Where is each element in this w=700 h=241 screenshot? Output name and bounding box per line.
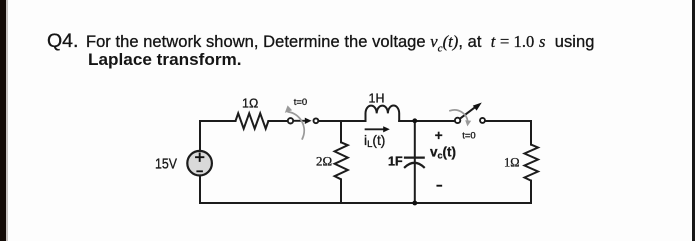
source V1 plus sign xyxy=(196,154,203,161)
svg-text:t=0: t=0 xyxy=(294,97,307,108)
node A junction dot (inductor/capacitor top) xyxy=(412,118,417,123)
question text line 2 xyxy=(88,51,242,70)
switch S2 motion arc arrowhead (gray) xyxy=(465,120,471,126)
svg-text:15V: 15V xyxy=(155,155,178,172)
wire: switch S2 right contact to top-right corner xyxy=(485,120,531,122)
svg-text:2Ω: 2Ω xyxy=(316,154,332,169)
current arrow iL(t) head xyxy=(383,126,390,132)
wire: switch S1 to node A (passes 2-ohm tap) xyxy=(318,120,365,122)
svg-text:+: + xyxy=(435,128,443,143)
node B junction dot (capacitor bottom) xyxy=(412,201,417,206)
wire: 2-ohm branch upper xyxy=(340,121,342,142)
voltage source V1 15V circle xyxy=(187,151,212,176)
switch S1 blade line xyxy=(294,120,306,122)
wire: left vertical upper xyxy=(199,121,201,151)
left edge scan border bar xyxy=(0,0,6,241)
wire: inductor right to switch S2 (passes cap node) xyxy=(399,120,455,122)
resistor R3 1ohm (right vertical zigzag) xyxy=(525,145,539,181)
switch S1 motion arc arrowhead (gray) xyxy=(285,105,292,113)
inductor L1 1H (raised coil with 3 arcs) xyxy=(366,106,400,121)
switch S2 blade arrowhead xyxy=(473,103,482,111)
switch S1 right contact circle xyxy=(314,118,319,123)
switch S1 motion arc (gray) xyxy=(288,112,304,139)
wire: left vertical lower xyxy=(199,175,201,203)
wire: right vertical lower xyxy=(530,181,532,203)
svg-text:1Ω: 1Ω xyxy=(504,156,520,170)
resistor R2 2ohm (middle vertical zigzag) xyxy=(335,142,348,179)
switch S2 blade line (open, raised) xyxy=(460,107,476,119)
switch S1 left contact circle xyxy=(288,118,293,123)
capacitor C1 top plate xyxy=(405,157,424,159)
wire: right vertical upper xyxy=(530,121,532,145)
svg-text:1Ω: 1Ω xyxy=(242,97,258,111)
source V1 minus sign xyxy=(197,170,202,172)
current arrow iL(t) shaft xyxy=(366,128,384,130)
wire: 2-ohm branch lower xyxy=(340,179,342,203)
wire: capacitor branch vertical (continuous through plates) xyxy=(414,121,416,203)
svg-text:t=0: t=0 xyxy=(462,131,475,142)
svg-text:1H: 1H xyxy=(369,92,385,106)
wire: bottom horizontal xyxy=(200,202,531,204)
wire: resistor to switch S1 xyxy=(268,120,287,122)
switch S2 left contact circle xyxy=(455,118,460,123)
svg-text:1F: 1F xyxy=(388,155,403,169)
wire: top-left horizontal segment xyxy=(200,120,236,122)
svg-text:vc(t): vc(t) xyxy=(430,145,456,161)
resistor R1 1ohm (top-left horizontal zigzag) xyxy=(236,113,269,128)
svg-text:iL(t): iL(t) xyxy=(364,133,385,150)
switch S1 blade arrowhead xyxy=(305,118,312,124)
question text line 1 xyxy=(47,30,594,54)
right edge scan border line xyxy=(692,0,695,241)
capacitor C1 curved bottom plate xyxy=(405,163,424,167)
switch S2 right contact circle xyxy=(480,118,485,123)
label vc(t) minus xyxy=(437,185,441,187)
switch S2 motion arc (gray) xyxy=(450,110,468,122)
